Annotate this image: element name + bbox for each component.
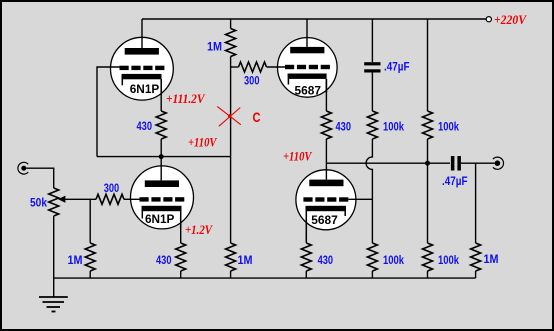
tube U3 5687 upper envelope (278, 38, 338, 98)
wire U2 cathode lead (180, 222, 182, 243)
wire wiper row (65, 198, 96, 200)
wire U1 cathode lead down (160, 79, 162, 111)
ground stem (53, 278, 55, 297)
wire 1M bottom-center to bus (230, 271, 232, 278)
svg-text:1M: 1M (68, 253, 83, 267)
wire U2 plate lead (160, 157, 162, 181)
svg-text:6N1P: 6N1P (130, 82, 160, 96)
tube U1 6N1P upper envelope (110, 37, 173, 100)
U1 cathode bar (122, 74, 162, 79)
wire 100k E to bus (371, 271, 373, 278)
svg-text:1M: 1M (484, 252, 499, 266)
node dot B (425, 161, 430, 166)
output jack center pin (495, 160, 501, 166)
svg-text:430: 430 (156, 253, 172, 267)
wire col E with hop over output (366, 139, 372, 243)
wire 300 to U2 grid (124, 198, 140, 200)
U4 cathode legs (306, 211, 345, 243)
resistor 1M bottom-left (85, 243, 95, 271)
svg-text:100k: 100k (438, 120, 459, 134)
resistor 430 (U3 cathode) (321, 111, 331, 139)
resistor 100k bottom E (367, 243, 377, 271)
capacitor .47uF output plates (451, 156, 455, 171)
U2 cathode legs (142, 211, 180, 228)
wire pot bottom to ground bus (53, 216, 55, 278)
wire col F mid (427, 139, 429, 243)
svg-text:+111.2V: +111.2V (166, 91, 206, 106)
U3 grid dashes (285, 65, 330, 69)
svg-text:+110V: +110V (188, 134, 218, 149)
svg-text:+110V: +110V (283, 148, 313, 163)
U1 cathode legs (122, 79, 161, 95)
U2 grid dashes (140, 197, 185, 201)
resistor 100k mid F (423, 111, 433, 139)
U4 plate bar (309, 180, 343, 187)
wire cap to output jack (461, 162, 495, 164)
svg-text:430: 430 (318, 253, 334, 267)
tube U2 6N1P lower envelope (131, 166, 194, 229)
U3 cathode bar (288, 74, 327, 79)
red X center blob (228, 114, 232, 118)
svg-text:100k: 100k (383, 120, 404, 134)
svg-text:300: 300 (104, 181, 120, 195)
wire 430 to node (160, 139, 162, 157)
tube U4 5687 lower envelope (296, 170, 356, 230)
svg-text:100k: 100k (383, 253, 404, 267)
resistor 430 (U1 cathode) (156, 111, 166, 139)
U2 cathode bar (142, 206, 182, 211)
wire col E top lead (371, 19, 373, 62)
U3 plate bar (290, 47, 324, 53)
wire 1M junction to 300 (231, 66, 239, 68)
svg-text:1M: 1M (238, 253, 253, 267)
resistor 100k bottom F (423, 243, 433, 271)
resistor 430 (U4 cathode) (301, 243, 311, 271)
svg-text:6N1P: 6N1P (145, 212, 175, 226)
output jack J2 (493, 157, 504, 169)
wire bottom ground bus (54, 277, 476, 279)
svg-text:1M: 1M (207, 40, 222, 54)
wire 100k F to bus (427, 271, 429, 278)
wire output row (326, 162, 450, 164)
U4 cathode bar (306, 206, 347, 211)
potentiometer 50k body (49, 188, 59, 216)
wire top B+ bus (142, 18, 486, 20)
svg-text:100k: 100k (438, 253, 459, 267)
wire U3 cathode lead down (325, 79, 327, 111)
wire mid node row (97, 156, 231, 158)
U1 plate bar (125, 48, 159, 55)
pot wiper arrow (58, 196, 65, 203)
wire input to pot (26, 168, 53, 188)
svg-text:300: 300 (244, 74, 260, 88)
U4 grid dashes (303, 197, 348, 201)
ground bars (39, 297, 68, 312)
svg-text:430: 430 (137, 119, 153, 133)
svg-text:C: C (253, 109, 261, 125)
svg-text:5687: 5687 (311, 213, 338, 227)
wire U1 plate lead (141, 19, 143, 48)
resistor 300 (U2 grid stopper) (96, 194, 124, 204)
svg-text:430: 430 (336, 120, 352, 134)
resistor 300 (U3 grid) (239, 62, 267, 72)
wire 1M output drop (475, 163, 477, 243)
wire cap to 100k (371, 73, 373, 112)
resistor 1M bottom-center (226, 243, 236, 271)
wire 300 to U3 grid (267, 66, 286, 68)
red X cut mark (217, 106, 241, 126)
wire 430 U4 to bus (305, 271, 307, 278)
resistor 100k mid E (367, 111, 377, 139)
input jack center pin (21, 166, 26, 171)
wire 1M output to bus (475, 271, 477, 278)
U1 grid dashes (120, 66, 165, 70)
wire U3 plate lead (306, 19, 308, 47)
capacitor .47uF upper plates (364, 62, 380, 65)
wire 1M left to bus (89, 271, 91, 278)
svg-text:.47µF: .47µF (442, 174, 468, 188)
svg-text:.47µF: .47µF (384, 60, 410, 74)
U3 cathode legs (288, 79, 326, 93)
input jack J1 (18, 162, 28, 174)
node dot A (159, 154, 164, 159)
resistor 430 (U2 cathode) (176, 243, 186, 271)
svg-text:+220V: +220V (494, 12, 527, 27)
wire col F top lead (427, 19, 429, 111)
wire 430 U2 to bus (180, 271, 182, 278)
wire U4 grid to right (348, 198, 372, 200)
svg-text:5687: 5687 (295, 84, 322, 98)
terminal +220V open circle (486, 17, 491, 22)
wire center column top lead (230, 19, 232, 29)
svg-text:50k: 50k (30, 196, 47, 210)
resistor 1M upper (226, 29, 236, 57)
U2 plate bar (145, 180, 179, 187)
wire U1 grid to left riser (97, 67, 120, 157)
resistor 1M output (471, 243, 481, 271)
wire center column down through node C (230, 57, 232, 244)
wire 430 to output node to U4 plate (325, 139, 327, 180)
svg-text:+1.2V: +1.2V (185, 222, 213, 237)
wire 1M left drop (89, 199, 91, 243)
